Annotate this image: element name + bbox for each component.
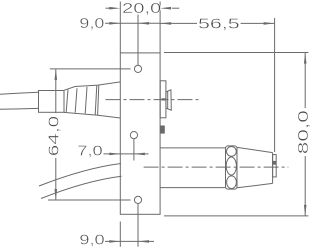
extension line bottom hole center (137, 204, 139, 247)
tip contact dark (273, 161, 276, 165)
dim 64,0 line upper (55, 69, 57, 113)
lower cylinder bottom edge (160, 187, 225, 189)
extension line flange top right (164, 52, 308, 54)
extension line probe tip (274, 18, 276, 152)
cone top edge (237, 147, 273, 152)
connector angled plate (166, 90, 171, 110)
dim 9,0 bottom arrow left (109, 240, 120, 243)
dim 56,5 arrow right (264, 22, 275, 25)
hole middle (130, 132, 137, 139)
wire pigtail upper (39, 164, 121, 187)
svg-text:80,0: 80,0 (295, 110, 311, 154)
dim 20,0 arrow right (160, 7, 171, 10)
svg-text:56,5: 56,5 (198, 15, 240, 32)
extension line hole bottom left (48, 199, 131, 201)
dim 9,0 top line (105, 22, 160, 24)
dim 64,0 arrow up (55, 69, 58, 80)
dim 56,5 arrow left (160, 22, 171, 25)
dim 7,0 arrow right (134, 153, 145, 156)
cone boundary line (98, 85, 99, 115)
strain relief ribbed cone bottom edge (64, 112, 120, 118)
svg-text:20,0: 20,0 (122, 0, 161, 17)
wire pigtail lower (41, 176, 122, 198)
wire cable top edge (0, 92, 39, 94)
wire cable bottom edge (0, 107, 39, 110)
hex nut outline (226, 146, 238, 189)
dim 20,0 arrow left (109, 7, 120, 10)
rib line 2 (75, 88, 77, 112)
extension stub below middle hole (133, 139, 135, 161)
dim 20,0 line right (172, 7, 179, 9)
hex nut facet bottom (227, 176, 237, 189)
dim 80,0 arrow down (304, 205, 307, 216)
rib line 1 (66, 90, 68, 112)
tip face plate (273, 155, 277, 177)
extension line flange right top (159, 2, 161, 53)
extension line flange bottom right (164, 215, 308, 217)
extension line top hole center (137, 15, 139, 66)
dim 9,0 top arrow right (138, 22, 149, 25)
extension line flange left bottom (119, 222, 121, 247)
hole bottom (134, 196, 141, 203)
dim 80,0 line lower (304, 156, 306, 216)
cable boot rectangle (39, 91, 65, 113)
rib line 4 (95, 85, 97, 115)
dim 9,0 bottom arrow right (138, 240, 149, 243)
dim 56,5 line right (241, 22, 275, 24)
svg-text:9,0: 9,0 (79, 15, 104, 32)
hole top (134, 65, 141, 72)
dim 7,0 line (104, 153, 149, 155)
dim 7,0 arrow left (109, 153, 120, 156)
centerline lower (144, 166, 289, 168)
connector plate inner line (167, 91, 169, 109)
dim 56,5 line left (160, 22, 197, 24)
hex nut facet middle (226, 157, 236, 175)
svg-text:64,0: 64,0 (45, 116, 62, 156)
flange plate (120, 53, 160, 214)
dim 64,0 arrow down (55, 189, 58, 200)
svg-text:9,0: 9,0 (79, 232, 104, 249)
small contact block dark (160, 126, 165, 134)
extension line hole top left (50, 68, 131, 70)
rib line 3 (85, 87, 87, 114)
connector block on right face (160, 81, 166, 118)
svg-text:7,0: 7,0 (77, 142, 102, 159)
dim 80,0 line upper (304, 53, 306, 108)
dim 20,0 line left (106, 7, 111, 9)
dim 9,0 bottom line (105, 240, 154, 242)
lower cylinder top edge (160, 147, 225, 149)
cone right edge (272, 153, 274, 184)
dim 80,0 arrow up (304, 53, 307, 64)
strain relief ribbed cone top edge (64, 82, 120, 90)
extension line flange left top (119, 2, 121, 53)
dim 9,0 top arrow left (109, 22, 120, 25)
connector center tick (161, 98, 165, 100)
dim 64,0 line lower (55, 158, 57, 200)
cone bottom edge (237, 183, 273, 187)
centerline upper (106, 99, 200, 101)
hex nut facet top (227, 147, 237, 157)
